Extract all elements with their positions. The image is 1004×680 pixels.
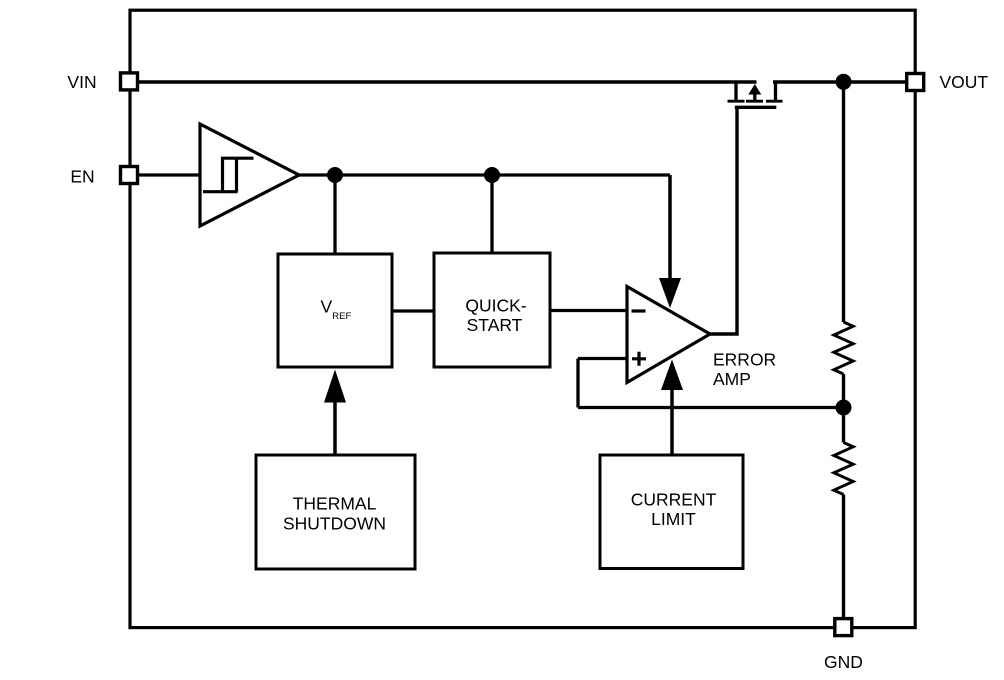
svg-text:ERROR: ERROR [713,350,776,370]
svg-text:LIMIT: LIMIT [651,509,696,529]
svg-text:VIN: VIN [67,72,96,92]
svg-text:REF: REF [332,311,351,322]
svg-text:THERMAL: THERMAL [293,494,377,514]
svg-text:V: V [321,297,333,317]
svg-text:QUICK-: QUICK- [465,296,526,316]
svg-text:EN: EN [70,167,94,187]
svg-text:AMP: AMP [713,369,751,389]
svg-text:SHUTDOWN: SHUTDOWN [283,514,386,534]
svg-text:GND: GND [824,652,863,672]
svg-text:CURRENT: CURRENT [631,490,717,510]
svg-text:VOUT: VOUT [940,72,989,92]
svg-text:START: START [467,315,523,335]
